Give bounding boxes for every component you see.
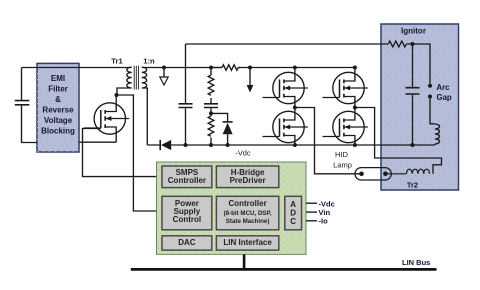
wire lamp to Tr2 bbox=[385, 173, 406, 175]
node bridge top left bbox=[293, 66, 297, 70]
block Controller MCU bbox=[216, 196, 278, 230]
block SMPS Controller bbox=[162, 166, 212, 188]
node rail C diode bbox=[226, 143, 230, 147]
svg-text:Gap: Gap bbox=[437, 93, 452, 102]
wire EMI bottom to Q1 source bbox=[79, 141, 116, 143]
wire -Vdc rail bbox=[147, 144, 435, 146]
wire to diode D2 bbox=[211, 113, 228, 121]
inductor Tr2 primary vertical bbox=[435, 124, 440, 144]
block Power Supply Control bbox=[162, 196, 212, 230]
svg-text:Control: Control bbox=[173, 215, 201, 224]
wire left mid bbox=[294, 102, 296, 112]
wire Q1 gate from SMPS controller bbox=[83, 129, 157, 177]
box EMI Filter bbox=[37, 63, 79, 152]
svg-text:EMI: EMI bbox=[51, 74, 65, 83]
svg-text:C: C bbox=[290, 217, 296, 226]
wire ignitor cap branch bbox=[412, 44, 414, 145]
transistor QB top-right bbox=[323, 72, 368, 103]
resistor R2 on rail bbox=[211, 65, 240, 70]
transistor QD bottom-right bbox=[323, 111, 368, 142]
wire bridge right to Tr2 bbox=[355, 108, 442, 174]
svg-text:Blocking: Blocking bbox=[41, 127, 75, 136]
svg-text:Reverse: Reverse bbox=[42, 106, 74, 115]
svg-text:LIN Interface: LIN Interface bbox=[223, 238, 272, 247]
svg-text:D: D bbox=[290, 208, 296, 217]
node rail C bridge left bbox=[293, 143, 297, 147]
svg-text:Lamp: Lamp bbox=[333, 160, 352, 169]
capacitor C-in bbox=[15, 101, 29, 105]
transistor Q1 bbox=[84, 103, 129, 134]
svg-text:&: & bbox=[55, 95, 61, 104]
node divider mid bbox=[209, 111, 213, 115]
svg-text:Filter: Filter bbox=[48, 85, 68, 94]
node ignitor top bbox=[411, 42, 415, 46]
node rail arrow branch bbox=[248, 66, 252, 70]
transistor QA top-left bbox=[263, 72, 308, 103]
wire LIN bus bbox=[131, 268, 437, 271]
svg-text:PreDriver: PreDriver bbox=[230, 176, 266, 185]
block H-Bridge PreDriver bbox=[216, 166, 278, 188]
svg-text:DAC: DAC bbox=[178, 238, 196, 247]
wire Q1 drain bbox=[115, 95, 117, 104]
svg-text:Controller: Controller bbox=[168, 176, 206, 185]
node rail C ignitor bbox=[411, 143, 415, 147]
transformer Tr1 core bbox=[134, 66, 138, 90]
svg-text:LIN Bus: LIN Bus bbox=[402, 258, 430, 267]
wire input left vertical bbox=[22, 68, 38, 143]
node rail C bridge right bbox=[353, 143, 357, 147]
svg-text:Arc: Arc bbox=[437, 83, 451, 92]
svg-text:Controller: Controller bbox=[228, 199, 266, 208]
arrow open triangle bbox=[160, 77, 168, 85]
node rail C divider bbox=[209, 143, 213, 147]
wire QC source bbox=[294, 141, 296, 145]
svg-text:1:n: 1:n bbox=[143, 57, 155, 66]
node bridge mid right bbox=[353, 106, 357, 110]
node bridge mid left bbox=[293, 106, 297, 110]
svg-text:Tr1: Tr1 bbox=[111, 57, 123, 66]
wire after R3 bbox=[406, 44, 430, 84]
svg-text:-Io: -Io bbox=[319, 217, 329, 226]
block ADC bbox=[285, 196, 302, 230]
node arc gap bottom bbox=[428, 95, 432, 99]
transformer Tr1 primary bbox=[117, 67, 132, 95]
diode D1 bbox=[160, 140, 171, 150]
wire QD source bbox=[354, 141, 356, 145]
wire ignitor feed rail bbox=[186, 43, 389, 45]
svg-text:Ignitor: Ignitor bbox=[401, 26, 426, 35]
transistor QC bottom-left bbox=[263, 111, 308, 142]
wire right mid bbox=[354, 102, 356, 112]
node rail resistor branch bbox=[209, 66, 213, 70]
box Ignitor bbox=[381, 24, 459, 190]
resistor R5 lower bbox=[208, 116, 214, 136]
wire gap to Tr2 primary bbox=[430, 98, 435, 145]
symbol secondary return arrow bbox=[163, 68, 165, 78]
svg-text:Tr2: Tr2 bbox=[407, 180, 418, 189]
box controller green bbox=[157, 162, 307, 254]
wire bridge left to lamp bbox=[295, 108, 362, 174]
capacitor C-ignitor bbox=[406, 88, 420, 94]
wire QA drain bbox=[294, 68, 296, 74]
wire QB drain bbox=[354, 68, 356, 74]
resistor R3 ignitor bbox=[388, 41, 406, 47]
diode D2 bbox=[223, 122, 233, 134]
wire LIN drop bbox=[243, 254, 246, 269]
node drain junction bbox=[115, 93, 119, 97]
wire current arrow bbox=[249, 68, 251, 87]
wire bus cap branch bbox=[185, 44, 187, 145]
wire input top bbox=[22, 67, 132, 69]
node bridge top right bbox=[353, 66, 357, 70]
capacitor C-bus bbox=[179, 104, 193, 108]
svg-text:Voltage: Voltage bbox=[44, 116, 73, 125]
svg-text:HID: HID bbox=[335, 150, 349, 159]
arrow down filled bbox=[247, 85, 254, 93]
capacitor C2 bbox=[204, 104, 218, 108]
node rail C cap bbox=[184, 143, 188, 147]
svg-text:State Machine): State Machine) bbox=[226, 218, 270, 225]
wire ADC -Vdc stub bbox=[306, 202, 317, 204]
transformer Tr1 secondary bbox=[142, 67, 148, 145]
wire D2 bottom bbox=[227, 134, 229, 145]
node arc gap top bbox=[428, 84, 432, 88]
inductor Tr2 secondary horizontal bbox=[407, 169, 430, 174]
svg-text:-Vdc: -Vdc bbox=[235, 148, 251, 157]
wire divider branch bbox=[210, 68, 212, 146]
block LIN Interface bbox=[216, 236, 278, 250]
wire drain sense to Power Supply Control bbox=[117, 95, 157, 211]
wire ADC -Io stub bbox=[306, 220, 317, 222]
svg-text:(8-bit MCU, DSP,: (8-bit MCU, DSP, bbox=[224, 210, 272, 217]
HID lamp bbox=[355, 168, 391, 180]
block DAC bbox=[162, 236, 212, 250]
wire +DC rail bbox=[142, 67, 355, 69]
wire Q1 source lead bbox=[115, 133, 117, 142]
node secondary top bbox=[162, 66, 166, 70]
resistor R4 upper bbox=[208, 75, 214, 95]
wire ADC Vin stub bbox=[306, 211, 317, 213]
